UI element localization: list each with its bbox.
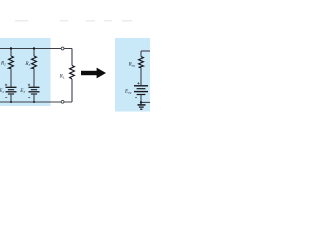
wire: branch 3 lower lead xyxy=(33,94,35,102)
resistor R3 zigzag xyxy=(32,56,37,69)
plus sign of Eeq xyxy=(137,82,139,84)
junction dot: equivalent branch / bottom bus xyxy=(140,101,142,103)
minus sign of E2 xyxy=(5,97,7,99)
svg-text:RL: RL xyxy=(59,74,65,80)
resistor R2 zigzag xyxy=(9,56,14,69)
wire: load branch vertical (right side of left network) xyxy=(71,49,73,66)
wire: left network top bus xyxy=(0,48,72,50)
wire: branch 2 middle lead xyxy=(10,69,12,88)
terminal a (top open circle) xyxy=(61,47,64,50)
battery Eeq xyxy=(134,86,148,95)
shaded region (left source network) xyxy=(0,38,51,106)
junction dot: branch 3 / bottom bus xyxy=(33,101,35,103)
wire: right network bottom bus xyxy=(141,101,150,103)
faint print bleed-through dashes xyxy=(15,20,132,22)
arrow (network reduction) xyxy=(81,68,106,79)
wire: equivalent branch lower lead xyxy=(140,95,142,105)
resistor RL (load) zigzag xyxy=(70,66,75,80)
plus sign of E3 xyxy=(28,84,30,86)
wire: branch 2 upper lead xyxy=(10,49,12,57)
wire: right network top bus xyxy=(141,50,150,52)
shaded region (right equivalent network) xyxy=(115,38,150,112)
terminal b (bottom open circle) xyxy=(61,100,64,103)
wire: equivalent branch middle lead xyxy=(140,68,142,86)
junction dot: branch 2 / top bus xyxy=(10,47,12,49)
resistor Req zigzag xyxy=(139,57,144,68)
wire: left network bottom bus xyxy=(0,101,72,103)
minus sign of Eeq xyxy=(135,97,137,99)
battery E2 xyxy=(6,87,17,94)
ground symbol xyxy=(138,105,146,109)
plus sign of E2 xyxy=(5,84,7,86)
junction dot: branch 3 / top bus xyxy=(33,47,35,49)
battery E3 xyxy=(29,87,40,94)
wire: branch 3 middle lead xyxy=(33,69,35,88)
wire: equivalent branch upper lead xyxy=(140,51,142,57)
wire: branch 3 upper lead xyxy=(33,49,35,57)
junction dot: branch 2 / bottom bus xyxy=(10,101,12,103)
wire: branch 2 lower lead xyxy=(10,94,12,102)
minus sign of E3 xyxy=(28,97,30,99)
